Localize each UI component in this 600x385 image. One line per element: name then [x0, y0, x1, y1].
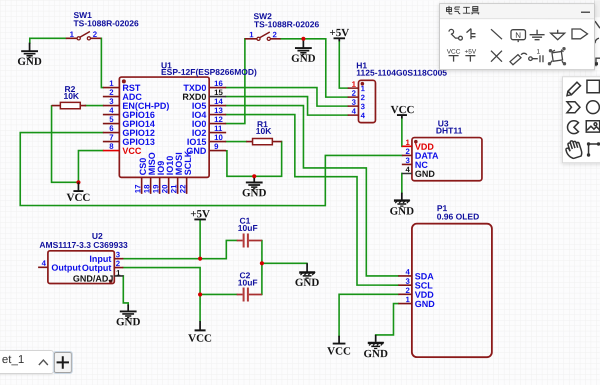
wire U1 IO15 through R1: [226, 141, 246, 143]
U1 pin 16 TXD0: [183, 79, 226, 93]
H1 pin 1: [348, 80, 366, 93]
P1 pin 2 VDD: [398, 286, 434, 300]
wire SW1 pin2 to U1 RST: [101, 38, 103, 87]
svg-text:12: 12: [214, 115, 223, 124]
U1 pin 20 IO10 (bottom): [160, 156, 174, 194]
svg-text:N: N: [515, 31, 521, 40]
svg-text:19: 19: [151, 184, 160, 193]
svg-text:3: 3: [405, 277, 410, 286]
hidden palette sliver at right edge: [594, 0, 600, 70]
U2 pin 3 Input: [89, 250, 123, 264]
svg-text:3: 3: [405, 156, 410, 165]
svg-text:+5V: +5V: [329, 27, 349, 39]
svg-text:4: 4: [361, 111, 366, 120]
H1 value 1125-1104G0S118C005: [356, 68, 447, 78]
svg-text:1: 1: [249, 30, 254, 39]
svg-text:18: 18: [142, 184, 151, 193]
U3 pin 4 GND: [402, 165, 436, 179]
svg-text:2: 2: [109, 88, 114, 97]
sensor U3 DHT11 body: [412, 138, 482, 181]
svg-text:10K: 10K: [256, 126, 272, 136]
svg-text:1: 1: [361, 84, 366, 93]
junction J4: [198, 257, 202, 261]
svg-text:GND: GND: [242, 187, 267, 199]
wire VCC to DHT11 VDD: [401, 118, 403, 146]
wire OLED GND pin to ground: [376, 304, 399, 335]
ground (C1/C2, hatched): [295, 263, 320, 289]
P1 pin 1 GND: [398, 295, 435, 309]
svg-text:6: 6: [109, 124, 114, 133]
U3 pin 3 NC: [402, 156, 429, 170]
U1 pin 22 SCLK (bottom): [178, 150, 192, 194]
wire +5V rail to U2 Input junction: [199, 219, 201, 258]
power flag VCC (bottom, U2 output net): [188, 321, 212, 345]
svg-text:GND: GND: [291, 53, 316, 65]
wire R1 right down to GND junction: [254, 142, 281, 177]
wire U2 Input pin3: [123, 258, 200, 260]
svg-text:SCLK: SCLK: [183, 150, 193, 175]
svg-text:VCC: VCC: [188, 333, 212, 345]
U1 pin 19 IO9 (bottom): [151, 161, 165, 194]
wire junction to C1 left: [200, 240, 237, 258]
ground (SW1): [17, 43, 42, 68]
ground (OLED, hatched): [363, 335, 388, 360]
U2 pin 1 GND/ADJ: [73, 269, 123, 284]
U1 value ESP-12F(ESP8266MOD): [161, 67, 257, 77]
wire U2 GND/ADJ pin1 to ground: [123, 276, 128, 305]
R1 value 10K: [256, 126, 272, 136]
U2 pin 2 Output (right): [82, 259, 123, 273]
power flag +5V (near H1): [329, 27, 349, 41]
U1 pin 21 MOSI (bottom): [169, 152, 183, 194]
svg-text:VCC: VCC: [447, 49, 461, 56]
wire R2 left to VCC junction: [52, 106, 79, 182]
U1 pin 17 CS0 (bottom): [133, 158, 147, 194]
svg-text:2: 2: [361, 93, 366, 102]
svg-text:14: 14: [214, 97, 223, 106]
U1 pin 2 ADC: [103, 88, 143, 102]
svg-text:ESP-12F(ESP8266MOD): ESP-12F(ESP8266MOD): [161, 67, 257, 77]
drawing tools palette: [562, 76, 600, 164]
bottom sheet tab: [0, 350, 54, 373]
svg-text:3: 3: [361, 102, 366, 111]
svg-text:3: 3: [352, 98, 357, 107]
U1 pin 8 VCC: [103, 142, 142, 156]
svg-text:DHT11: DHT11: [436, 126, 463, 136]
svg-text:1: 1: [536, 49, 540, 56]
junction J3: [252, 174, 256, 178]
R2 value 10K: [63, 91, 79, 101]
U1 reference label: [161, 60, 172, 70]
svg-text:GND: GND: [415, 299, 436, 309]
capacitor C2: [237, 287, 262, 301]
junction J6: [260, 261, 264, 265]
U1 pin 9 GND: [186, 142, 226, 156]
svg-text:GND: GND: [363, 348, 388, 360]
U1 pin 7 GPIO13: [103, 133, 155, 147]
svg-text:GND/ADJ: GND/ADJ: [73, 274, 114, 284]
wire C junction to GND: [262, 262, 307, 264]
resistor R2: [52, 102, 87, 108]
svg-text:4: 4: [109, 106, 114, 115]
svg-text:1: 1: [406, 138, 411, 147]
svg-text:TS-1088R-02026: TS-1088R-02026: [254, 19, 319, 29]
wire DHT11 GND pin to ground: [401, 173, 403, 193]
svg-text:16: 16: [214, 79, 223, 88]
wire junction down to VCC symbol: [199, 294, 201, 321]
svg-text:GND: GND: [295, 277, 320, 289]
wire U1 GPIO12 to DHT11 DATA (long net): [20, 133, 402, 206]
op IC U1 ESP-12F(ESP8266MOD) body: [119, 77, 209, 177]
svg-text:1: 1: [70, 30, 75, 39]
U1 pin 10 IO15: [187, 133, 226, 147]
U3 pin 2 DATA: [402, 147, 439, 161]
svg-text:VCC: VCC: [327, 346, 351, 358]
svg-text:10uF: 10uF: [238, 223, 258, 233]
power flag VCC (above DHT11): [391, 104, 415, 118]
U1 pin 3 EN(CH-PD): [103, 97, 170, 111]
SW2 reference label: [253, 11, 272, 21]
U3 pin 1 VDD: [402, 138, 435, 152]
U1 pin 1 RST: [103, 79, 141, 93]
U1 pin 18 MISO (bottom): [142, 152, 156, 194]
junction J1: [301, 37, 305, 41]
svg-text:11: 11: [214, 124, 223, 133]
svg-text:4: 4: [405, 165, 410, 174]
switch SW1: [66, 30, 101, 40]
C2 value 10uF: [238, 277, 258, 287]
P1 pin 3 SCL: [398, 277, 433, 291]
svg-text:15: 15: [214, 88, 223, 97]
ground (R1 / U1 pin9): [242, 178, 267, 199]
svg-text:4: 4: [42, 259, 47, 268]
svg-text:VCC: VCC: [122, 146, 142, 156]
wire +5V to H1 pin1: [339, 41, 347, 88]
P1 pin 4 SDA: [398, 268, 434, 282]
svg-text:4: 4: [405, 268, 410, 277]
U1 pin 11 IO2: [192, 124, 226, 138]
wire SW1 pin1 to GND net: [30, 38, 66, 43]
U2 reference label: [92, 231, 103, 241]
ground (SW2 junction): [291, 41, 316, 65]
svg-text:2: 2: [273, 30, 278, 39]
ground (DHT11, hatched): [390, 193, 415, 218]
svg-text:3: 3: [109, 97, 114, 106]
svg-text:3: 3: [116, 250, 121, 259]
SW2 value TS-1088R-02026: [254, 19, 319, 29]
svg-text:1: 1: [116, 269, 121, 278]
U3 value DHT11: [436, 126, 463, 136]
U1 pin 15 RXD0: [182, 88, 226, 102]
resistor R1: [246, 138, 281, 144]
wire OLED VDD to VCC: [339, 294, 398, 336]
regulator U2 AMS1117 body: [48, 251, 114, 284]
U1 pin 4 GPIO16: [103, 106, 155, 120]
switch SW2: [245, 30, 281, 40]
svg-text:10uF: 10uF: [238, 277, 258, 287]
wire U1 IO0 to SW2 pin1: [226, 39, 245, 124]
wire R2 right to U1 EN(CH-PD): [85, 105, 102, 107]
wire U1 GND pin9 to GND junction: [226, 151, 254, 177]
svg-text:Output: Output: [51, 263, 81, 273]
svg-text:GND: GND: [390, 206, 415, 218]
U1 pin 14 IO5: [192, 97, 226, 111]
U1 pin 13 IO4: [192, 106, 226, 120]
C1 value 10uF: [238, 223, 258, 233]
svg-text:GND: GND: [17, 56, 42, 68]
svg-text:5: 5: [109, 115, 114, 124]
wire U1 IO4 to OLED SCL: [226, 115, 398, 286]
wire SW2 pin2 to junction and H1 pin2: [281, 39, 348, 97]
svg-text:10: 10: [214, 133, 223, 142]
ground (U2): [116, 305, 141, 329]
R1 reference label: [257, 119, 268, 129]
power flag VCC (left, U1 pin8 net): [67, 182, 91, 204]
electrical tools floating panel: [439, 3, 596, 70]
svg-text:1: 1: [405, 295, 410, 304]
svg-text:GND: GND: [116, 316, 141, 328]
U2 value AMS1117-3.3 C369933: [39, 240, 128, 250]
svg-text:2: 2: [116, 259, 121, 268]
svg-text:VCC: VCC: [67, 192, 91, 204]
svg-text:1: 1: [109, 79, 114, 88]
svg-text:2: 2: [352, 89, 357, 98]
U2 pin 4 Output (left): [38, 259, 81, 273]
H1 pin 3: [348, 98, 366, 111]
U1 pin 12 IO0: [192, 115, 226, 129]
wire U1 TXD0 to H1 pin3: [226, 88, 348, 107]
wire U2 Output pin2 to C2 junction: [123, 268, 200, 295]
power flag VCC (below OLED VDD): [327, 336, 351, 358]
R2 reference label: [65, 84, 76, 94]
svg-text:2: 2: [405, 286, 410, 295]
junction J5: [198, 292, 202, 296]
add sheet button: [54, 352, 72, 373]
SW1 reference label: [73, 10, 92, 20]
svg-text:1: 1: [352, 80, 357, 89]
svg-text:4: 4: [352, 107, 357, 116]
display P1 0.96 OLED body: [412, 224, 492, 358]
H1 pin 2: [348, 89, 366, 102]
SW1 value TS-1088R-02026: [73, 18, 138, 28]
svg-text:20: 20: [160, 184, 169, 193]
P1 value 0.96 OLED: [437, 211, 480, 221]
junction J2: [76, 180, 80, 184]
svg-text:2: 2: [93, 30, 98, 39]
wire U1 RXD0 to H1 pin4: [226, 97, 348, 116]
svg-text:2: 2: [406, 147, 411, 156]
wire junction to C2 left: [200, 293, 237, 295]
svg-text:9: 9: [214, 142, 219, 151]
svg-text:7: 7: [109, 133, 113, 142]
connector H1 body: [358, 80, 375, 122]
U1 pin 5 GPIO14: [103, 115, 155, 129]
power flag +5V (above U2): [190, 208, 210, 220]
svg-text:Output: Output: [82, 263, 112, 273]
wire U1 IO5 to OLED SDA: [226, 106, 398, 276]
svg-text:TS-1088R-02026: TS-1088R-02026: [73, 18, 138, 28]
svg-text:AMS1117-3.3 C369933: AMS1117-3.3 C369933: [39, 240, 128, 250]
U3 reference label: [438, 118, 449, 128]
svg-text:21: 21: [169, 184, 178, 193]
H1 reference label: [356, 60, 367, 70]
svg-text:8: 8: [109, 142, 114, 151]
capacitor C1: [237, 233, 262, 247]
C1 reference label: [239, 216, 250, 226]
wire C1 right down to C2 right: [261, 240, 263, 294]
svg-text:17: 17: [133, 185, 142, 194]
svg-text:22: 22: [178, 184, 187, 193]
svg-text:+5V: +5V: [464, 49, 476, 56]
svg-text:1125-1104G0S118C005: 1125-1104G0S118C005: [356, 68, 447, 78]
P1 reference label: [437, 203, 448, 213]
svg-text:GND: GND: [415, 169, 436, 179]
svg-text:13: 13: [214, 106, 223, 115]
wire VCC junction up to U1 pin8 VCC: [78, 151, 102, 183]
H1 pin 4: [348, 107, 366, 120]
svg-text:0.96 OLED: 0.96 OLED: [437, 211, 480, 221]
U1 pin 6 GPIO12: [103, 124, 155, 138]
svg-text:10K: 10K: [63, 91, 79, 101]
C2 reference label: [239, 270, 250, 280]
